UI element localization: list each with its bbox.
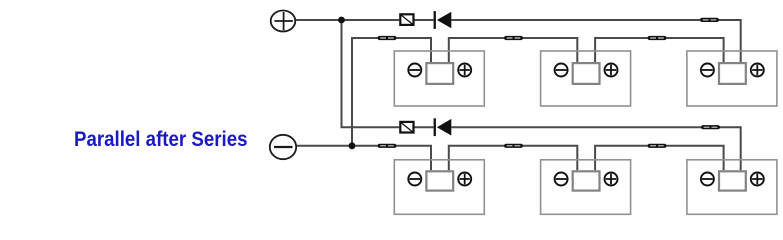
battery B6 case xyxy=(687,160,777,215)
blocking diode D1 xyxy=(434,11,452,29)
circuit breaker CB2 (square with diagonal) xyxy=(400,122,413,133)
positive terminal xyxy=(271,11,296,32)
battery B2 minus mark xyxy=(555,64,568,77)
fuse F6 xyxy=(504,144,523,148)
battery B5 plus mark xyxy=(605,173,618,186)
fuse F8 xyxy=(701,125,720,129)
battery B3 plus mark xyxy=(751,64,764,77)
fuse F3 xyxy=(648,36,667,40)
fuse F1 xyxy=(378,36,397,40)
wire: negative terminal to junction B xyxy=(297,145,352,147)
wire: series link B1 plus to B2 minus xyxy=(449,38,578,62)
wire: junction B to B4 negative post xyxy=(352,146,431,170)
fuse F5 xyxy=(378,144,397,148)
battery B5 minus mark xyxy=(555,173,568,186)
battery B6 terminal block xyxy=(719,171,746,190)
battery B2 terminal block xyxy=(573,63,600,84)
wire: D2 to battery B6 positive post xyxy=(451,127,741,170)
wire: series link B5 plus to B6 minus xyxy=(595,146,724,170)
wire: series link B4 plus to B5 minus xyxy=(449,146,578,170)
battery B2 case xyxy=(541,51,631,106)
battery B3 case xyxy=(687,51,777,106)
battery B1 minus mark xyxy=(408,64,421,77)
battery B3 terminal block xyxy=(719,63,746,84)
svg-text:Parallel after Series: Parallel after Series xyxy=(74,127,248,151)
junction A (positive bus) xyxy=(338,17,345,24)
fuse F4 xyxy=(700,18,719,22)
fuse F7 xyxy=(648,144,667,148)
wire: CB2 to D2 xyxy=(414,126,433,128)
battery B4 plus mark xyxy=(458,173,471,186)
battery B5 case xyxy=(541,160,631,215)
battery B4 case xyxy=(394,160,484,215)
wire: series link B2 plus to B3 minus xyxy=(595,38,724,62)
wire: positive terminal to breaker CB1 xyxy=(296,19,399,21)
negative terminal xyxy=(270,135,296,159)
wire: D1 to battery B3 positive post (top bus) xyxy=(451,20,741,62)
battery B1 terminal block xyxy=(426,63,453,84)
battery B1 case xyxy=(394,51,484,106)
battery B2 plus mark xyxy=(605,64,618,77)
battery B6 plus mark xyxy=(751,173,764,186)
battery B6 minus mark xyxy=(701,173,714,186)
blocking diode D2 xyxy=(434,118,452,136)
wire: CB1 to D1 xyxy=(414,19,433,21)
battery B5 terminal block xyxy=(573,171,600,190)
battery B3 minus mark xyxy=(701,64,714,77)
battery B1 plus mark xyxy=(458,64,471,77)
junction B (negative bus) xyxy=(349,142,356,149)
wire: junction B up to string-1 bus and B1 negative post xyxy=(352,38,431,146)
wire: junction A down to string-2 feed xyxy=(342,20,400,127)
battery B4 minus mark xyxy=(408,173,421,186)
battery B4 terminal block xyxy=(426,171,453,190)
circuit breaker CB1 (square with diagonal) xyxy=(400,14,413,25)
fuse F2 xyxy=(504,36,523,40)
